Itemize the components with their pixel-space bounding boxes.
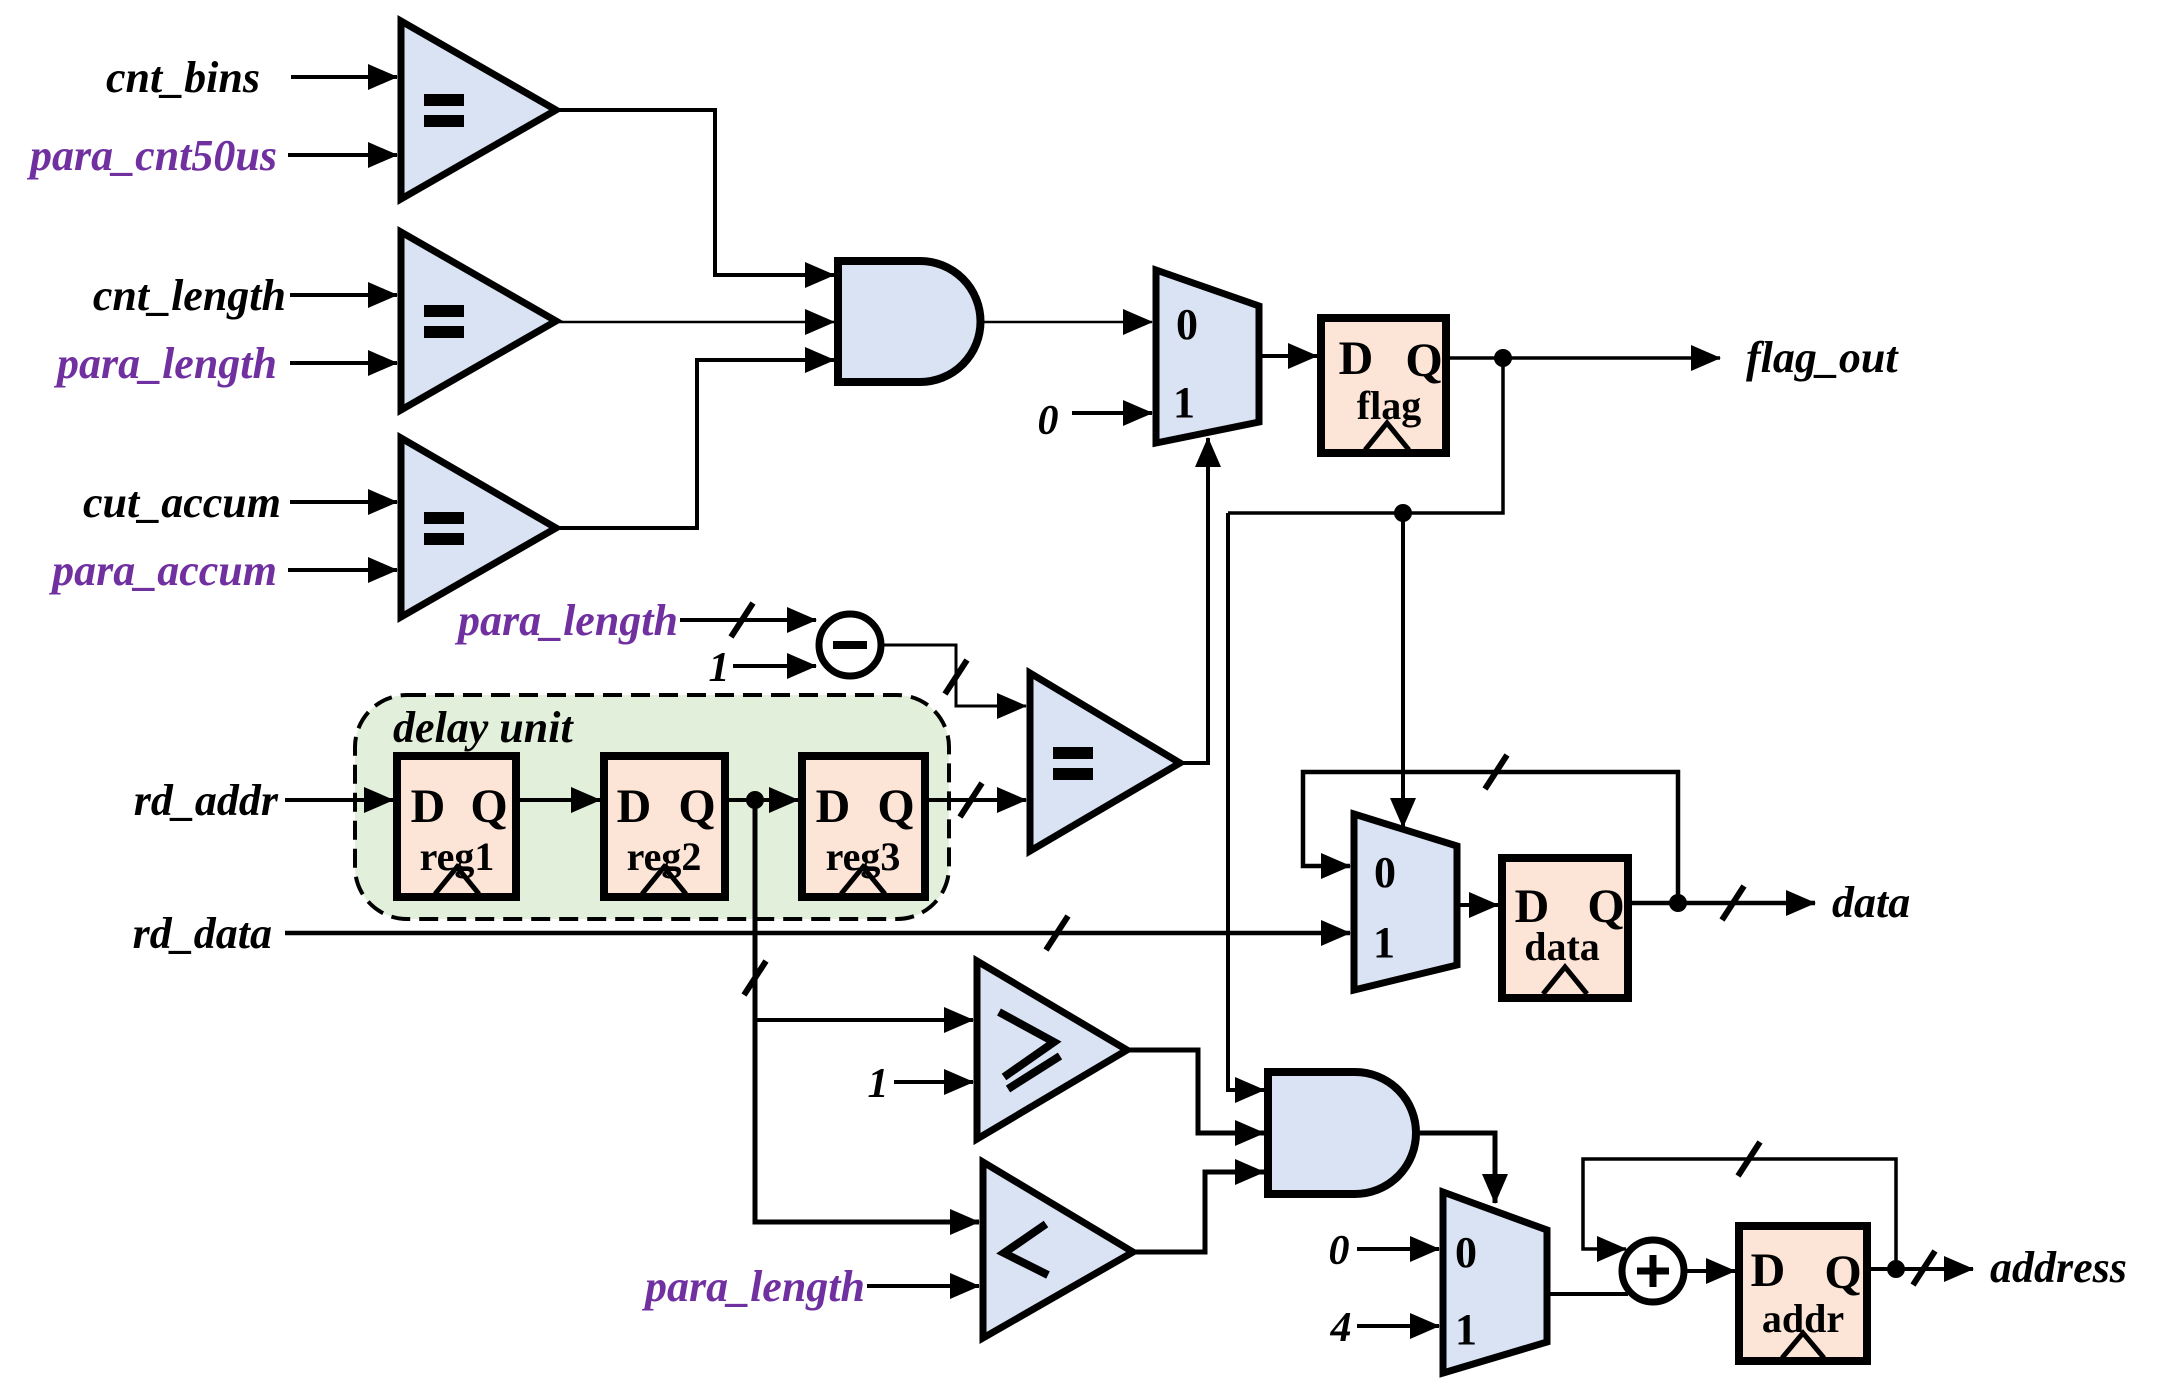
- svg-text:0: 0: [1038, 398, 1059, 444]
- svg-text:para_length: para_length: [454, 596, 678, 645]
- svg-text:Q: Q: [877, 780, 914, 833]
- svg-text:D: D: [411, 780, 446, 833]
- svg-text:cut_accum: cut_accum: [83, 478, 281, 527]
- svg-text:1: 1: [709, 645, 730, 691]
- svg-text:D: D: [816, 780, 851, 833]
- svg-text:1: 1: [1455, 1305, 1477, 1354]
- svg-text:D: D: [1751, 1244, 1786, 1297]
- svg-text:Q: Q: [1824, 1246, 1861, 1299]
- svg-text:address: address: [1990, 1243, 2127, 1292]
- svg-text:0: 0: [1176, 300, 1198, 349]
- svg-text:0: 0: [1455, 1228, 1477, 1277]
- svg-text:1: 1: [868, 1061, 889, 1107]
- svg-text:Q: Q: [470, 780, 507, 833]
- svg-text:data: data: [1832, 878, 1910, 927]
- svg-text:0: 0: [1329, 1228, 1350, 1274]
- svg-text:rd_data: rd_data: [133, 909, 272, 958]
- svg-text:para_length: para_length: [641, 1262, 865, 1311]
- svg-text:Q: Q: [1405, 334, 1442, 387]
- svg-text:para_cnt50us: para_cnt50us: [26, 131, 277, 180]
- svg-text:D: D: [617, 780, 652, 833]
- svg-text:para_accum: para_accum: [48, 546, 277, 595]
- svg-text:1: 1: [1173, 378, 1195, 427]
- svg-text:D: D: [1339, 332, 1374, 385]
- svg-text:cnt_length: cnt_length: [93, 271, 286, 320]
- svg-text:reg3: reg3: [826, 834, 901, 879]
- svg-text:para_length: para_length: [53, 339, 277, 388]
- svg-text:flag: flag: [1357, 383, 1421, 428]
- svg-text:delay unit: delay unit: [393, 703, 574, 752]
- svg-text:rd_addr: rd_addr: [134, 776, 279, 825]
- svg-text:reg1: reg1: [420, 834, 495, 879]
- svg-text:0: 0: [1374, 848, 1396, 897]
- svg-text:reg2: reg2: [627, 834, 702, 879]
- svg-text:data: data: [1524, 924, 1600, 969]
- svg-text:flag_out: flag_out: [1746, 333, 1899, 382]
- svg-text:4: 4: [1330, 1305, 1352, 1351]
- svg-text:cnt_bins: cnt_bins: [106, 53, 260, 102]
- svg-text:1: 1: [1373, 918, 1395, 967]
- svg-text:Q: Q: [678, 780, 715, 833]
